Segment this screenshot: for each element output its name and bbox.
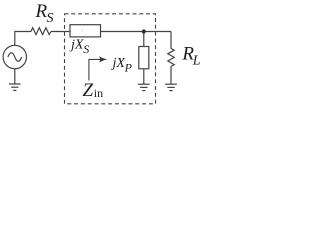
- junction node dot: [142, 29, 146, 33]
- ground under source: [9, 84, 21, 90]
- wire down to R_L: [170, 32, 172, 49]
- svg-text:jX: jX: [69, 37, 84, 52]
- sine wave inside source: [8, 53, 22, 62]
- svg-text:in: in: [94, 86, 103, 100]
- svg-text:jX: jX: [111, 56, 126, 71]
- wire source top to resistor: [15, 32, 31, 46]
- svg-text:S: S: [83, 42, 89, 56]
- AC source V1: [3, 45, 26, 68]
- resistor R_S zigzag: [31, 28, 51, 35]
- svg-text:P: P: [124, 61, 133, 75]
- svg-text:S: S: [47, 11, 54, 26]
- svg-text:Z: Z: [83, 80, 94, 101]
- series reactance jX_S box: [70, 25, 101, 37]
- wire jX_P to ground: [143, 69, 145, 84]
- wire source bottom: [14, 69, 16, 84]
- resistor R_L zigzag: [168, 48, 174, 66]
- wire R_L to ground: [170, 66, 172, 84]
- matching-network dashed box: [65, 14, 156, 104]
- wire junction down to jX_P: [143, 32, 145, 47]
- ground under jX_P: [138, 84, 150, 90]
- ground under R_L: [165, 84, 177, 90]
- svg-text:L: L: [192, 53, 201, 68]
- wire R_S to jX_S box: [51, 31, 70, 33]
- wire jX_S to right corner: [101, 31, 172, 33]
- faint mark inside jX_S box: [82, 30, 84, 32]
- shunt reactance jX_P box: [139, 47, 149, 69]
- Z_in arrow: [89, 59, 104, 80]
